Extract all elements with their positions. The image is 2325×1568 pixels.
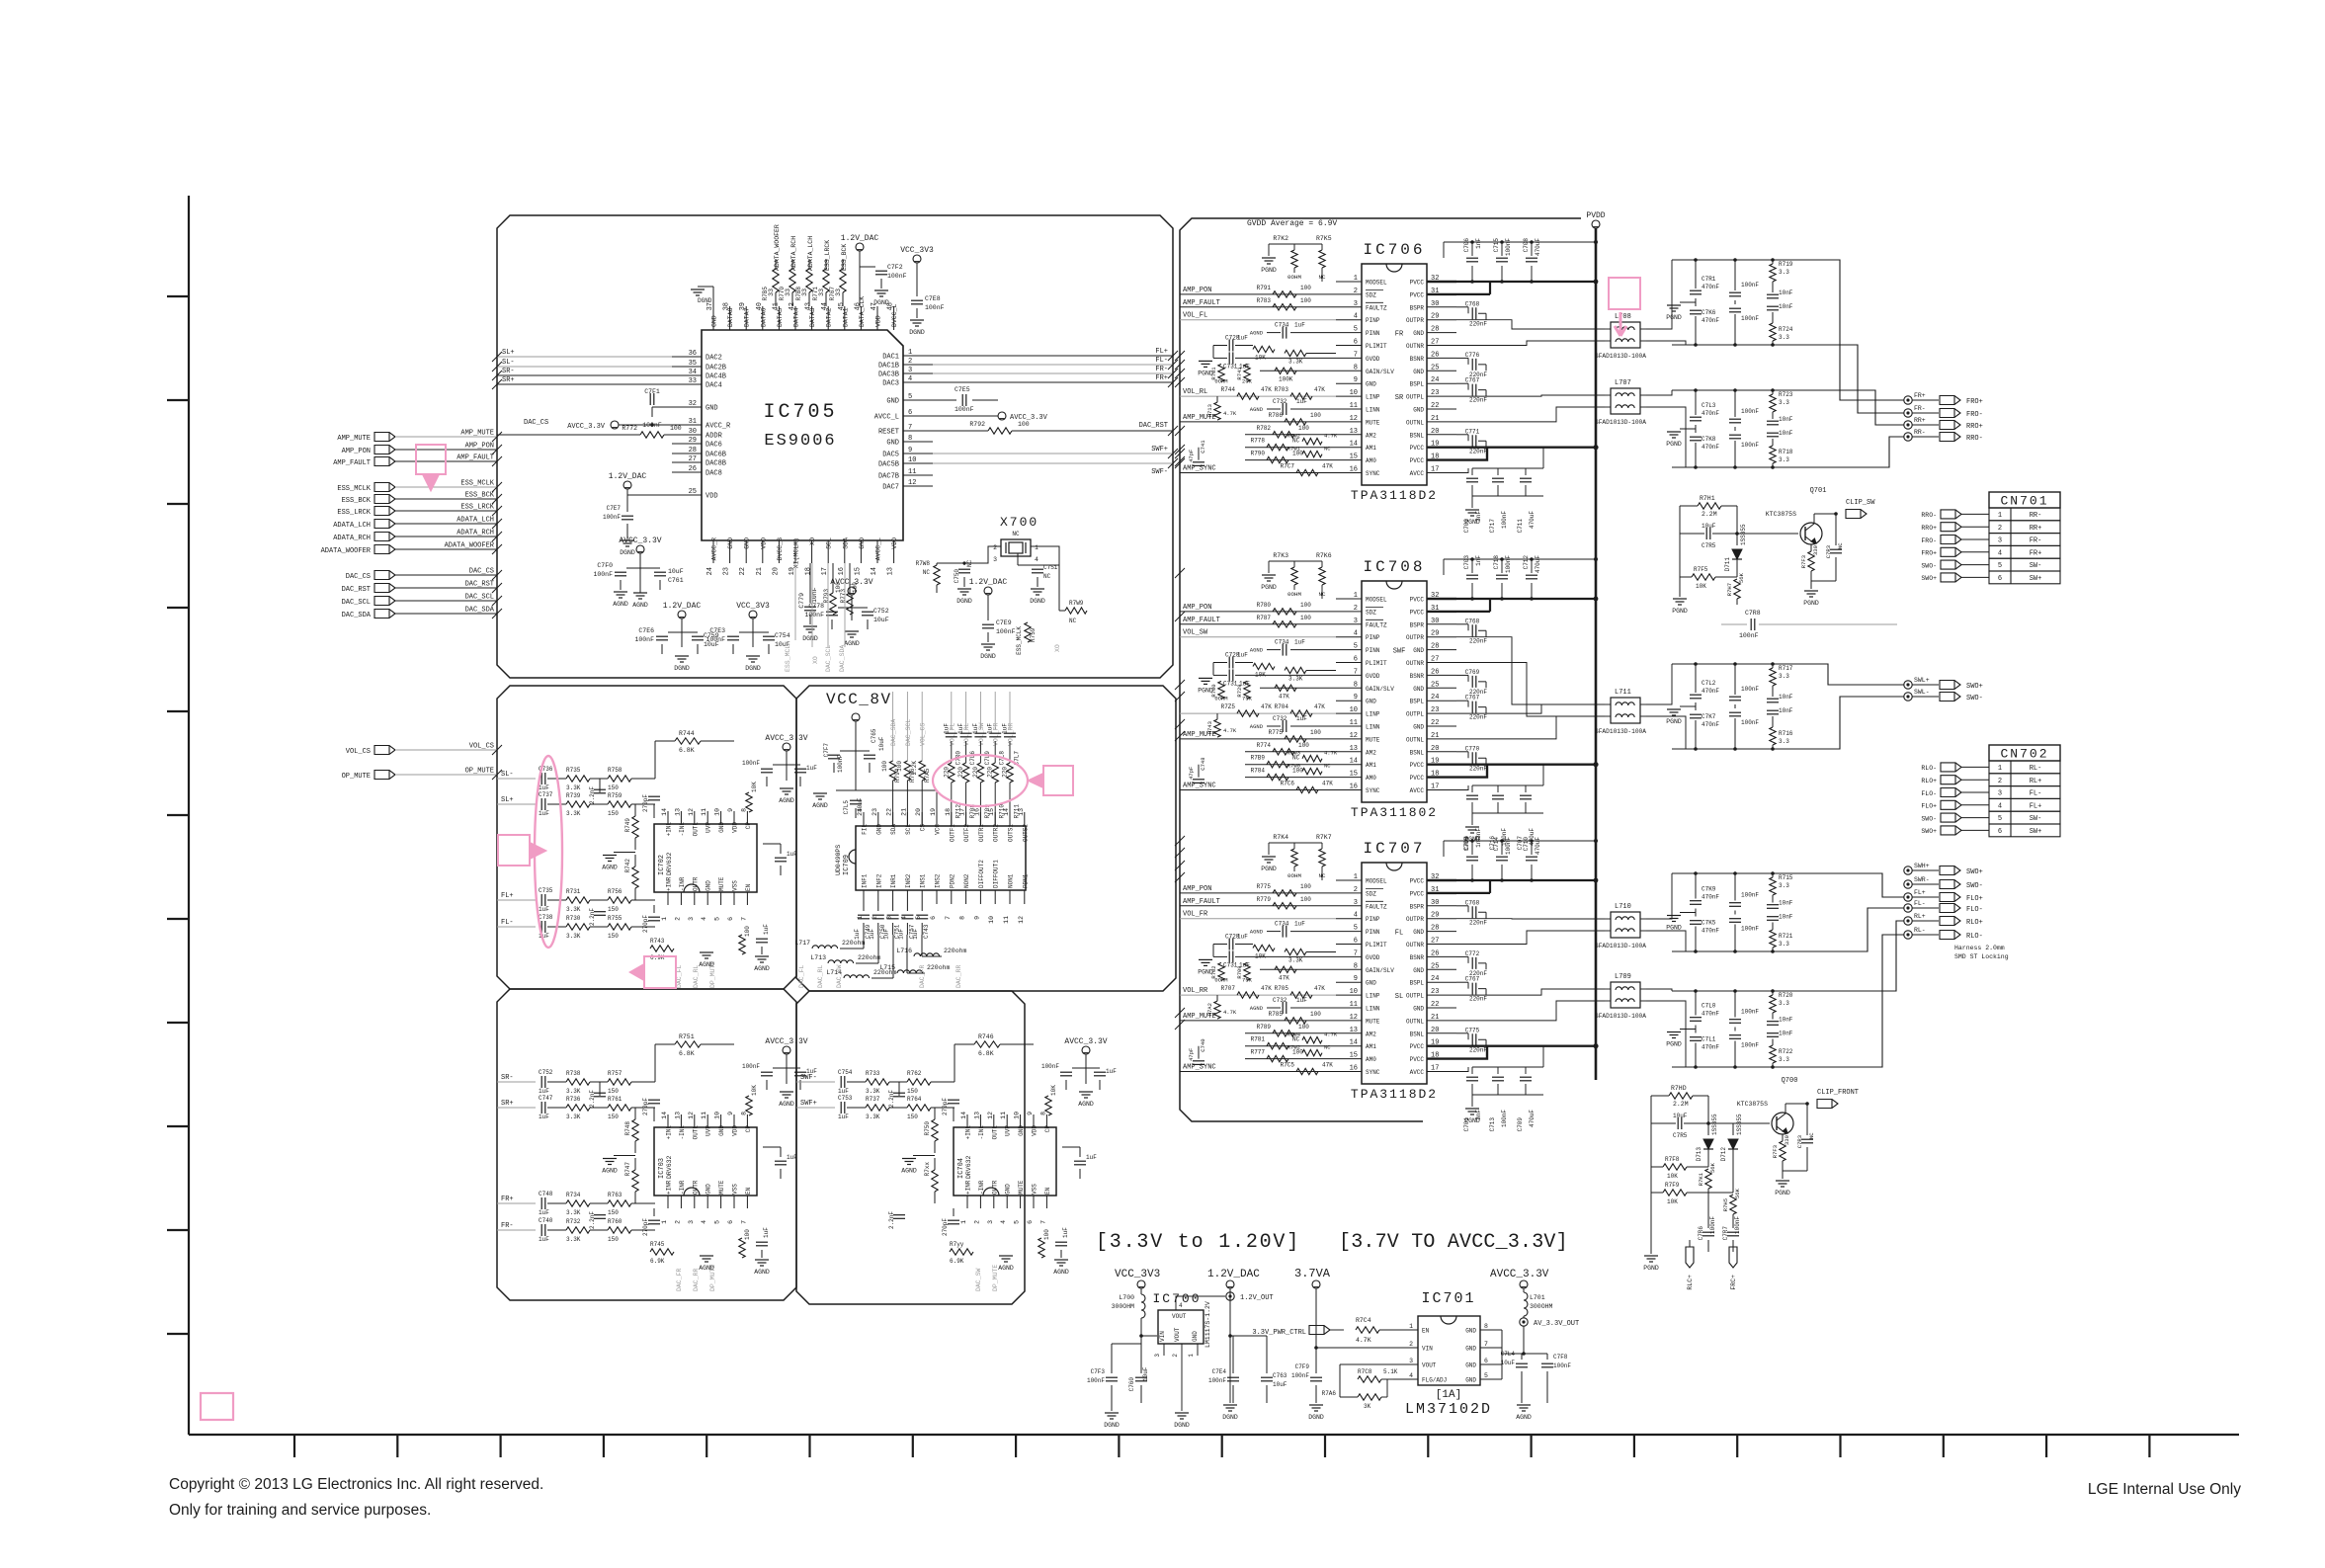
capacitor 1uF plimit b IC708	[1228, 669, 1230, 681]
svg-text:C7F3: C7F3	[1091, 1368, 1106, 1375]
capacitor bottom bank IC707	[1471, 1067, 1473, 1074]
svg-text:IC704: IC704	[957, 1158, 965, 1179]
capacitor C772 220nF	[1456, 955, 1468, 957]
IC705 pin 18 XO	[811, 540, 813, 563]
svg-text:C7L6: C7L6	[969, 751, 976, 766]
resistor R771 33	[825, 292, 827, 306]
svg-text:220: 220	[943, 767, 950, 778]
svg-text:DAC_RST: DAC_RST	[342, 586, 371, 594]
svg-text:SR: SR	[1395, 394, 1404, 402]
wire avcc to chip	[1502, 1329, 1512, 1331]
svg-text:470uF: 470uF	[1535, 837, 1541, 855]
svg-text:C732: C732	[1273, 997, 1287, 1004]
svg-text:100: 100	[744, 1229, 751, 1240]
svg-text:BSPL: BSPL	[1410, 699, 1425, 705]
IC705 pin 30 ADDR	[672, 434, 702, 436]
IC705 pin 9 DAC5	[903, 453, 933, 454]
svg-text:GND: GND	[1413, 1006, 1424, 1013]
svg-text:1: 1	[1354, 873, 1358, 881]
svg-text:RLO-: RLO-	[1921, 765, 1937, 772]
svg-text:PDN2: PDN2	[949, 873, 955, 888]
capacitor C752 1uF	[540, 1076, 542, 1088]
svg-text:C765: C765	[871, 728, 877, 743]
ground PGND C7R1	[1695, 298, 1697, 306]
svg-text:MUTE: MUTE	[1366, 736, 1380, 743]
IC707 pin 29 OUTPR	[1427, 918, 1456, 920]
capacitor bottom bank IC706	[1471, 468, 1473, 475]
wire OP_MUTE	[395, 774, 497, 776]
svg-text:5: 5	[1354, 925, 1358, 933]
input flag AMP_MUTE	[374, 433, 395, 442]
svg-text:R787: R787	[1257, 615, 1272, 621]
svg-text:ESS_MCLK: ESS_MCLK	[785, 641, 791, 672]
svg-text:DAC_SDA: DAC_SDA	[342, 612, 372, 619]
svg-text:R780: R780	[1257, 602, 1272, 609]
wire SL+ to DAC2	[497, 356, 672, 358]
svg-text:DAC_SDA: DAC_SDA	[839, 645, 846, 672]
capacitor C750 NC	[958, 568, 970, 570]
capacitor 2.2nF upper IC704	[898, 1082, 900, 1096]
IC708 pin 5 PINN	[1336, 649, 1362, 651]
inductor L708 SFAD1013D-100A	[1611, 322, 1640, 348]
svg-text:DAC5: DAC5	[882, 452, 899, 459]
svg-text:100: 100	[670, 425, 682, 432]
svg-text:4: 4	[1354, 630, 1358, 638]
svg-text:SMD ST Locking: SMD ST Locking	[1954, 953, 2009, 960]
resistor 6.9K bottom IC703	[650, 1249, 674, 1255]
svg-text:21: 21	[1431, 1014, 1439, 1022]
svg-text:R7HD: R7HD	[1671, 1085, 1687, 1092]
svg-text:5: 5	[1998, 562, 2002, 570]
svg-text:1uF: 1uF	[1296, 997, 1307, 1004]
power AVCC_3.3V left	[611, 421, 619, 429]
svg-text:13: 13	[674, 1112, 681, 1119]
op-amp IC706 body	[1362, 264, 1427, 485]
svg-text:IC705: IC705	[763, 401, 837, 424]
svg-text:7: 7	[740, 917, 747, 921]
input flag ADATA_RCH	[374, 533, 395, 541]
svg-text:R744: R744	[1221, 386, 1236, 393]
svg-text:BSNR: BSNR	[1410, 356, 1425, 363]
IC708 pin 18 PVCC	[1427, 776, 1456, 778]
border slash amp wires	[1175, 612, 1185, 621]
svg-text:22: 22	[739, 567, 747, 575]
flag CLIP_FRONT	[1785, 1104, 1786, 1114]
svg-text:3.3V_PWR_CTRL: 3.3V_PWR_CTRL	[1252, 1329, 1306, 1337]
svg-text:R7H7: R7H7	[1726, 583, 1733, 596]
svg-text:RRO+: RRO+	[1966, 423, 1983, 431]
svg-text:300OHM: 300OHM	[1530, 1303, 1553, 1310]
svg-text:3: 3	[987, 1220, 994, 1224]
IC708 pin 20 BSNL	[1427, 751, 1456, 753]
capacitor C7K9 470nF	[1695, 873, 1697, 899]
svg-text:1uF: 1uF	[854, 929, 861, 940]
svg-text:C734: C734	[1275, 639, 1289, 646]
svg-text:PVCC: PVCC	[1410, 445, 1425, 452]
IC703 pin 1	[667, 1196, 669, 1208]
svg-text:ESS_BCK: ESS_BCK	[342, 497, 372, 505]
IC701 pin 3 VOUT	[1393, 1363, 1418, 1365]
IC706 pin 32 PVCC	[1427, 281, 1456, 283]
capacitor C749 1uF	[863, 904, 865, 911]
capacitor C763 10uF	[1230, 1335, 1267, 1337]
svg-text:VCC_8V: VCC_8V	[826, 691, 892, 708]
capacitor 47pF IC708	[1193, 779, 1204, 781]
svg-text:100nF: 100nF	[1041, 1063, 1059, 1070]
IC707 pin 7 GVDD	[1336, 955, 1362, 957]
capacitor 1uF linn IC708	[1290, 725, 1336, 727]
ground PGND left Q701	[1679, 577, 1681, 597]
connector CN702 pin 1 RL-	[1941, 763, 1961, 772]
svg-text:DAC8: DAC8	[706, 470, 722, 478]
svg-text:R7K1: R7K1	[1698, 1172, 1704, 1186]
svg-text:15: 15	[1350, 771, 1358, 779]
connector CN701 pin 6 SW+	[1941, 573, 1961, 582]
svg-text:100nF: 100nF	[1741, 926, 1759, 933]
IC702 pin 14	[667, 811, 669, 824]
svg-text:2: 2	[1409, 1341, 1413, 1348]
resistor R760 150	[608, 1227, 631, 1233]
svg-text:C754: C754	[775, 632, 790, 639]
svg-text:GND: GND	[706, 880, 712, 891]
svg-text:1uF: 1uF	[987, 723, 994, 734]
IC707 pin 20 BSNL	[1427, 1032, 1456, 1034]
svg-text:KTC3875S: KTC3875S	[1737, 1101, 1768, 1108]
border slash boxA right	[1168, 449, 1178, 458]
svg-text:3: 3	[1998, 537, 2002, 545]
svg-text:PINP: PINP	[1366, 634, 1380, 641]
svg-text:DGND: DGND	[1104, 1422, 1120, 1429]
wire gnd bus ic701	[1501, 1330, 1503, 1379]
IC703 pin 3	[694, 1196, 696, 1208]
IC705 pin 32 GND	[672, 406, 702, 408]
capacitor NC Q700	[1806, 1104, 1808, 1135]
svg-text:R773: R773	[840, 589, 847, 604]
svg-text:R7A5: R7A5	[924, 768, 931, 783]
wire FR+	[497, 1202, 536, 1204]
IC705 pin 1 DAC1	[903, 355, 933, 357]
IC709 pin 21 SCL	[906, 812, 908, 826]
resistor R7HD 2.2M	[1650, 1096, 1652, 1123]
svg-text:100nF: 100nF	[1739, 632, 1759, 639]
IC705 pin 13 VDD	[893, 540, 895, 563]
svg-text:GND: GND	[1465, 1362, 1476, 1369]
IC702 pin 12	[694, 811, 696, 824]
resistor R763 150	[608, 1200, 631, 1206]
svg-text:28: 28	[1431, 643, 1439, 651]
svg-text:OUTPL: OUTPL	[1406, 711, 1424, 718]
svg-text:BSPR: BSPR	[1410, 621, 1425, 628]
svg-text:1nF: 1nF	[1475, 238, 1482, 249]
svg-text:ADATA_RCH: ADATA_RCH	[457, 530, 494, 537]
svg-text:SFAD1013D-100A: SFAD1013D-100A	[1595, 419, 1646, 426]
node RRO- terminal	[1904, 433, 1912, 441]
svg-text:10uF: 10uF	[668, 568, 684, 575]
svg-text:C7R7: C7R7	[1722, 1226, 1729, 1241]
svg-text:AM2: AM2	[1366, 749, 1376, 756]
IC709 pin 24 FIL	[863, 812, 865, 826]
svg-text:300OHM: 300OHM	[1112, 1303, 1135, 1310]
svg-text:470uF: 470uF	[1529, 511, 1536, 529]
svg-text:1SS355: 1SS355	[1736, 1114, 1743, 1135]
svg-text:C7L4: C7L4	[1501, 1351, 1516, 1358]
IC703 pin 13	[680, 1114, 682, 1127]
svg-text:SWL+: SWL+	[1914, 677, 1930, 684]
svg-text:VOUT: VOUT	[1422, 1362, 1437, 1369]
svg-text:OUTNL: OUTNL	[1406, 419, 1424, 426]
resistor 10K IC706	[1253, 346, 1275, 352]
svg-text:3: 3	[1354, 618, 1358, 625]
svg-text:26: 26	[1431, 949, 1439, 957]
resistor 10K IC704	[1045, 1096, 1051, 1115]
svg-text:16: 16	[1350, 466, 1358, 474]
IC702 pin 1	[667, 892, 669, 905]
svg-text:R748: R748	[624, 1121, 631, 1136]
capacitor C7L3 470nF	[1695, 390, 1697, 415]
input flag DAC_RST	[374, 584, 395, 593]
svg-text:DAC_SDA: DAC_SDA	[465, 607, 495, 615]
connector CN702 pin 6 SW+	[1941, 826, 1961, 835]
svg-text:IC708: IC708	[1363, 558, 1425, 576]
svg-text:6.9K: 6.9K	[950, 1258, 964, 1265]
capacitor C768 220nF	[1456, 623, 1468, 625]
capacitor 100nF avcc IC704	[1072, 1067, 1086, 1069]
ruler tick B14	[1633, 1435, 1635, 1457]
svg-text:100: 100	[1300, 602, 1311, 609]
IC705 pin 39 DATA7	[745, 306, 747, 330]
svg-text:PGND: PGND	[1666, 925, 1682, 932]
svg-text:13: 13	[674, 808, 681, 816]
capacitor C715 100nF	[1501, 242, 1503, 256]
pink mark flag left	[416, 445, 446, 474]
wire X700 n3	[937, 562, 988, 564]
svg-text:VDD: VDD	[875, 315, 882, 327]
ground DGND X700a	[957, 588, 971, 590]
svg-text:100nF: 100nF	[742, 1063, 760, 1070]
svg-text:100nF: 100nF	[1501, 511, 1508, 529]
IC700 pin 3	[1163, 1344, 1165, 1356]
resistor R796 100	[904, 761, 910, 781]
svg-text:ADATA_WOOFER: ADATA_WOOFER	[445, 542, 495, 550]
svg-text:DATA1: DATA1	[842, 307, 849, 327]
ruler tick B16	[1839, 1435, 1841, 1457]
IC708 pin 31 PVCC	[1427, 611, 1456, 613]
power 1.2V_DAC bottom	[678, 611, 686, 619]
svg-text:PVCC: PVCC	[1410, 597, 1425, 604]
IC706 pin 6 PLIMIT	[1336, 345, 1362, 347]
svg-text:PINN: PINN	[1366, 330, 1380, 337]
svg-text:C712: C712	[1523, 555, 1530, 570]
svg-text:C778: C778	[808, 603, 824, 610]
svg-text:GND: GND	[1465, 1346, 1476, 1353]
resistor 4.7K IC707	[1214, 1001, 1220, 1019]
svg-text:R731: R731	[566, 888, 581, 895]
svg-text:L707: L707	[1615, 379, 1631, 387]
capacitor C705 1nF	[1471, 841, 1473, 855]
svg-text:VSS: VSS	[1032, 1184, 1038, 1195]
svg-text:GND: GND	[1192, 1331, 1199, 1342]
svg-text:1: 1	[1188, 1354, 1195, 1358]
svg-text:PVCC: PVCC	[1410, 457, 1425, 464]
svg-text:3.3: 3.3	[1779, 334, 1789, 341]
ground DGND reg3	[1229, 1336, 1231, 1403]
svg-text:+INL: +INL	[666, 1125, 673, 1140]
svg-text:NC: NC	[1319, 591, 1326, 598]
svg-text:R7H5: R7H5	[1722, 1198, 1729, 1211]
svg-text:DAC5B: DAC5B	[878, 461, 899, 469]
svg-text:2.2nF: 2.2nF	[888, 1211, 895, 1229]
svg-text:FAULTZ: FAULTZ	[1366, 903, 1387, 910]
capacitor C7W9 100nF	[1734, 314, 1736, 345]
svg-text:D713: D713	[1696, 1147, 1702, 1162]
IC709 pin 11 NON1	[1009, 890, 1011, 904]
svg-text:GND: GND	[1366, 980, 1376, 987]
svg-text:FRO+: FRO+	[1966, 398, 1983, 406]
svg-text:C734: C734	[1275, 921, 1289, 928]
IC707 pin 4 PINP	[1336, 918, 1362, 920]
svg-text:10nF: 10nF	[1779, 900, 1793, 907]
svg-text:6.9K: 6.9K	[650, 1258, 665, 1265]
svg-text:GND: GND	[718, 1125, 725, 1136]
svg-text:1uF: 1uF	[787, 851, 797, 858]
svg-text:IC709: IC709	[843, 855, 851, 875]
svg-text:MODSEL: MODSEL	[1366, 280, 1387, 287]
svg-text:7: 7	[1039, 1220, 1046, 1224]
IC708 pin 8 GAIN/SLV	[1336, 687, 1362, 689]
svg-text:2.2M: 2.2M	[1702, 511, 1717, 518]
svg-text:MUTE: MUTE	[1366, 1018, 1380, 1025]
IC706 pin 12 MUTE	[1336, 421, 1362, 423]
IC705 pin 25 VDD	[672, 494, 702, 496]
svg-text:RESET: RESET	[878, 429, 899, 437]
svg-text:21: 21	[900, 808, 907, 816]
svg-text:1uF: 1uF	[1294, 639, 1305, 646]
svg-text:R789: R789	[1257, 1024, 1272, 1031]
svg-text:R786: R786	[1269, 412, 1284, 419]
resistor 10K IC702	[746, 792, 752, 812]
svg-text:5: 5	[1354, 643, 1358, 651]
svg-text:BSNL: BSNL	[1410, 432, 1425, 439]
svg-text:OUTNR: OUTNR	[1406, 660, 1424, 667]
svg-text:220nF: 220nF	[1469, 714, 1487, 721]
capacitor C7C3 10nF	[1772, 1013, 1774, 1020]
svg-text:C7E7: C7E7	[607, 505, 622, 512]
ruler tick L3	[167, 503, 189, 505]
IC708 pin 12 MUTE	[1336, 738, 1362, 740]
svg-text:C754: C754	[838, 1069, 853, 1076]
svg-text:XI(MCLK): XI(MCLK)	[793, 537, 800, 568]
svg-text:7: 7	[908, 424, 912, 432]
inductor L711 SFAD1013D-100A	[1611, 698, 1640, 723]
svg-text:R777: R777	[1251, 1049, 1266, 1056]
connector CN702 pin 4 FL+	[1941, 800, 1961, 809]
svg-text:100: 100	[1300, 896, 1311, 903]
ruler tick B9	[1118, 1435, 1120, 1457]
border slash DAC_SCL	[492, 596, 502, 606]
wire VOL_RR IC707	[1180, 994, 1336, 996]
svg-text:470nF: 470nF	[1702, 410, 1719, 417]
resistor R734 3.3K	[566, 1200, 590, 1206]
svg-text:C7R1: C7R1	[1702, 276, 1716, 283]
svg-text:AGND: AGND	[1250, 929, 1264, 936]
svg-text:1nF: 1nF	[1475, 555, 1482, 566]
svg-text:C768: C768	[1465, 899, 1480, 906]
svg-text:11: 11	[1000, 1112, 1007, 1119]
svg-text:VDD: VDD	[760, 537, 767, 549]
wire FLO+ route	[1810, 873, 1904, 897]
svg-text:220nF: 220nF	[1469, 996, 1487, 1003]
input flag DAC_CS	[374, 571, 395, 580]
IC705 pin 47 VDD	[876, 306, 878, 330]
svg-text:10uF: 10uF	[1501, 1360, 1516, 1366]
svg-text:100nF: 100nF	[1709, 1216, 1716, 1234]
IC705 pin 15 GND	[860, 540, 862, 563]
svg-text:DGND: DGND	[1308, 1414, 1324, 1421]
svg-text:R761: R761	[608, 1096, 623, 1103]
svg-text:3: 3	[908, 367, 912, 374]
svg-text:AGND: AGND	[602, 1168, 618, 1175]
svg-text:RL-: RL-	[2030, 765, 2042, 773]
svg-text:15: 15	[1350, 454, 1358, 461]
svg-text:1uF: 1uF	[1296, 398, 1307, 405]
resistor R735 3.3K	[566, 776, 590, 782]
svg-text:R772: R772	[622, 425, 637, 432]
svg-text:GND: GND	[1413, 724, 1424, 731]
connector CN701	[1989, 492, 2060, 508]
diode D a Q701	[1736, 534, 1738, 545]
svg-text:RR+: RR+	[2030, 525, 2042, 533]
svg-text:100nF: 100nF	[593, 571, 613, 578]
svg-text:AMP_MUTE: AMP_MUTE	[1183, 1013, 1216, 1021]
IC700 pin 2	[1181, 1344, 1183, 1356]
svg-text:SWF: SWF	[1393, 648, 1406, 656]
svg-text:10: 10	[1350, 389, 1358, 397]
capacitor 10uF Q701	[1705, 528, 1707, 539]
svg-text:DAC_RL: DAC_RL	[817, 964, 824, 988]
capacitor C714 100nF	[1501, 841, 1503, 855]
wire filter rails C7R1	[1672, 259, 1810, 261]
IC706 pin 7 GVDD	[1336, 357, 1362, 359]
svg-text:R7K7: R7K7	[1316, 834, 1332, 841]
svg-text:VOL_FL: VOL_FL	[949, 722, 955, 746]
wire None IC708	[1180, 712, 1336, 714]
ruler tick B7	[912, 1435, 914, 1457]
capacitor C710 470uF	[1531, 841, 1533, 855]
svg-text:R783: R783	[1257, 297, 1272, 304]
capacitor C703 1nF	[1471, 559, 1473, 573]
svg-text:DGND: DGND	[1174, 1422, 1190, 1429]
svg-text:0OHM: 0OHM	[1214, 695, 1227, 701]
svg-text:23: 23	[723, 567, 731, 575]
svg-text:1uF: 1uF	[1237, 335, 1248, 342]
svg-text:AMP_PON: AMP_PON	[1183, 885, 1211, 893]
inductor L716 220ohm	[921, 935, 923, 956]
IC707 pin 3 FAULTZ	[1336, 905, 1362, 907]
svg-text:OUTL: OUTL	[692, 1125, 699, 1140]
svg-text:33: 33	[818, 289, 825, 296]
svg-text:17: 17	[1431, 784, 1439, 791]
svg-text:C7R8: C7R8	[1745, 610, 1761, 617]
svg-text:3.3K: 3.3K	[566, 784, 581, 791]
node SWO- terminal	[1904, 880, 1912, 888]
svg-text:C743: C743	[923, 924, 930, 939]
svg-text:FRO+: FRO+	[1921, 550, 1937, 557]
svg-text:1.2V_DAC: 1.2V_DAC	[969, 578, 1008, 587]
svg-text:AMP_FAULT: AMP_FAULT	[333, 459, 371, 467]
svg-text:6: 6	[1998, 828, 2002, 836]
ground AGND bypass	[633, 592, 647, 594]
resistor 47K b IC708	[1290, 710, 1312, 716]
